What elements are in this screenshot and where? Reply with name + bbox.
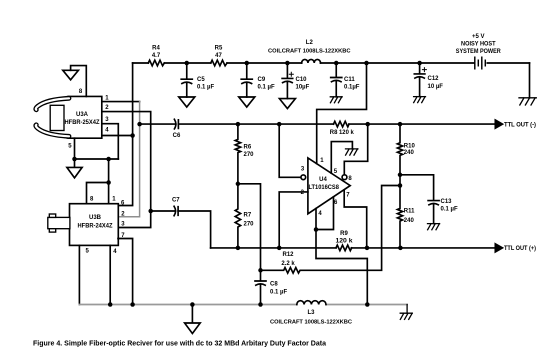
junction R6/R7 node xyxy=(236,182,241,187)
svg-text:HFBR-24X4Z: HFBR-24X4Z xyxy=(78,224,113,230)
junction +5V rail / C10 xyxy=(285,61,290,66)
wire U3A pin1 xyxy=(102,101,140,103)
svg-text:COILCRAFT 1008LS-122XKBC: COILCRAFT 1008LS-122XKBC xyxy=(270,320,352,326)
wire U3A pin4 xyxy=(102,135,133,137)
wire inverting input pin3 xyxy=(279,124,301,177)
pin 8 output bubble xyxy=(342,175,347,180)
svg-text:2.2 k: 2.2 k xyxy=(281,261,295,267)
junction R10/R11 node A (C13 branch) xyxy=(398,173,403,178)
junction +5V rail / C9 xyxy=(245,61,250,66)
chassis ground (pin5) xyxy=(346,149,358,155)
junction TTL(+) line / U4 pin7 branch xyxy=(365,246,370,251)
svg-text:0.1 µF: 0.1 µF xyxy=(441,207,458,213)
junction TTL(-) line / U4 pin8 branch xyxy=(365,122,370,127)
inductor L3 xyxy=(270,301,352,326)
resistor R12 xyxy=(261,186,401,274)
battery +5V noisy host system power xyxy=(456,34,502,69)
U3B port connector xyxy=(48,214,70,232)
U3B labels xyxy=(78,197,126,256)
resistor R11 xyxy=(397,175,415,248)
junction R10/R11 node B (R12 branch) xyxy=(398,183,403,188)
resistor R10 xyxy=(397,124,415,175)
svg-text:10µF: 10µF xyxy=(296,85,310,91)
svg-text:U3B: U3B xyxy=(89,215,102,221)
svg-text:R10: R10 xyxy=(404,143,416,149)
junction C6 line / R6 top xyxy=(236,122,241,127)
resistor R6 xyxy=(235,124,254,184)
junction ground rail / U3B pin7 xyxy=(130,302,135,307)
svg-text:U3A: U3A xyxy=(76,112,89,118)
U3B body xyxy=(70,204,119,246)
svg-text:270: 270 xyxy=(244,221,255,227)
svg-text:4.7: 4.7 xyxy=(152,53,161,59)
capacitor C7 xyxy=(172,197,180,215)
wire V+ supply to pin1 xyxy=(317,63,367,164)
svg-text:L2: L2 xyxy=(306,40,314,46)
U3A connector top prong xyxy=(36,98,69,110)
resistor R4 xyxy=(148,46,164,66)
wire rail end to chassis ground xyxy=(406,305,408,314)
svg-text:SYSTEM POWER: SYSTEM POWER xyxy=(456,49,502,55)
TTL OUT (-) arrow xyxy=(495,120,502,128)
ground (C5) xyxy=(179,97,195,107)
svg-text:240: 240 xyxy=(404,150,415,156)
junction U4 pin2 branch xyxy=(277,246,282,251)
junction +5V rail / U4 V+ branch xyxy=(364,61,369,66)
wire signal line C6 row xyxy=(140,123,495,125)
pin 3 input bubble xyxy=(301,175,306,180)
svg-text:COILCRAFT 1008LS-122XKBC: COILCRAFT 1008LS-122XKBC xyxy=(268,48,351,54)
ground (C9) xyxy=(239,97,255,107)
svg-text:NOISY HOST: NOISY HOST xyxy=(461,42,496,48)
chassis ground (rail end) xyxy=(400,313,412,319)
junction ground rail / U4 ground branch xyxy=(365,302,370,307)
capacitor C6 xyxy=(173,119,181,139)
capacitor C9 xyxy=(241,63,275,97)
wire U3B pin5 to bottom rail xyxy=(78,245,80,304)
junction C7 / U3A pin2 line xyxy=(148,209,153,214)
inductor L2 xyxy=(268,40,351,63)
resistor R7 xyxy=(235,184,254,248)
capacitor C10 polarized xyxy=(282,63,310,99)
wire ground node down to U3B pins 8,1 xyxy=(87,159,109,204)
wire ground node horizontal xyxy=(75,158,119,160)
svg-text:R12: R12 xyxy=(282,252,294,258)
junction +5V rail / C5 xyxy=(185,61,190,66)
svg-text:47: 47 xyxy=(215,53,222,59)
junction R7 bottom / signal line xyxy=(236,246,241,251)
capacitor C12 polarized xyxy=(414,63,443,97)
chassis ground (host power) xyxy=(519,98,536,105)
U3A connector bottom prong xyxy=(36,125,69,137)
junction +5V rail / C12 xyxy=(417,61,422,66)
svg-text:R8 120 k: R8 120 k xyxy=(330,130,355,136)
svg-text:L3: L3 xyxy=(307,310,315,316)
capacitor C11 xyxy=(331,63,360,97)
resistor R8 xyxy=(330,121,355,136)
svg-text:R11: R11 xyxy=(404,208,415,214)
wire bottom ground rail (gray) xyxy=(79,304,407,306)
svg-text:C7: C7 xyxy=(172,197,180,203)
svg-text:240: 240 xyxy=(404,218,415,224)
svg-text:C8: C8 xyxy=(270,281,278,287)
junction signal line / U4 pin3 branch xyxy=(277,122,282,127)
chassis ground (C13) xyxy=(428,224,440,230)
svg-text:R5: R5 xyxy=(215,46,223,52)
wire U3A pin2 down to U3B pin3 xyxy=(102,112,151,228)
junction TTL(-) line / R10 top xyxy=(398,122,403,127)
svg-text:+5 V: +5 V xyxy=(472,34,485,40)
svg-text:C6: C6 xyxy=(173,133,181,139)
svg-text:10 µF: 10 µF xyxy=(428,84,444,90)
chassis ground (C11) xyxy=(330,97,342,103)
svg-text:TTL OUT (+): TTL OUT (+) xyxy=(504,246,536,252)
wire pin5 latch to chassis ground xyxy=(331,142,352,174)
junction TTL(+) line / R11 bottom xyxy=(398,246,403,251)
wire pins 4,6 to ground rail xyxy=(316,197,367,305)
wire U3A pin8 to ground xyxy=(71,66,87,97)
wire R6/R7 node to threshold column xyxy=(238,184,261,270)
svg-text:R4: R4 xyxy=(152,46,160,52)
svg-text:C10: C10 xyxy=(296,77,308,83)
ground (U3A pin5) xyxy=(67,167,82,177)
junction U3A pin4 / VCC line xyxy=(130,133,135,138)
svg-text:0.1µF: 0.1µF xyxy=(344,85,360,91)
svg-text:LT1016CS8: LT1016CS8 xyxy=(308,185,339,191)
junction U3A pin5 ground node xyxy=(72,157,77,162)
resistor R5 xyxy=(211,46,227,66)
wire bottom signal row xyxy=(211,247,495,249)
junction U4 pins 4,6 ground branch xyxy=(314,227,319,232)
wire rail ground stub xyxy=(191,305,193,324)
svg-text:0.1 µF: 0.1 µF xyxy=(258,85,275,91)
wire pin7 output to TTL(+) net xyxy=(344,190,367,248)
resistor R9 xyxy=(336,231,354,251)
ground (rail) xyxy=(185,323,201,334)
wire U3A pin3 to ground node xyxy=(102,124,118,159)
wire C7 row xyxy=(151,211,211,248)
svg-text:C12: C12 xyxy=(428,76,440,82)
svg-text:R6: R6 xyxy=(244,145,252,151)
svg-text:C13: C13 xyxy=(441,199,453,205)
wire U3B pin7 to bottom rail xyxy=(118,239,133,305)
svg-text:120 k: 120 k xyxy=(336,238,354,244)
capacitor C5 xyxy=(181,63,214,97)
wire battery right down xyxy=(529,63,531,98)
wire pin2 input xyxy=(279,192,308,248)
svg-text:TTL OUT (-): TTL OUT (-) xyxy=(504,122,536,128)
wire U3A pin1 to U3B pin2 (gray) xyxy=(118,102,139,217)
ground (U3A pin8) xyxy=(63,70,79,80)
wire top +5V rail segments xyxy=(133,62,530,64)
U3A connector notch xyxy=(50,105,64,130)
capacitor C13 xyxy=(400,175,458,224)
junction U3B pin8 branch xyxy=(106,180,111,185)
svg-text:270: 270 xyxy=(244,152,255,158)
svg-text:0.1 µF: 0.1 µF xyxy=(270,290,287,296)
ground (C10) xyxy=(279,99,295,109)
junction ground rail / ground symbol xyxy=(190,302,195,307)
wire U3B pin4 to bottom rail xyxy=(109,245,111,304)
wire U3A pin5 to ground xyxy=(74,138,76,167)
junction ground rail / C8 xyxy=(258,302,263,307)
TTL OUT (+) arrow xyxy=(495,244,502,252)
svg-text:R9: R9 xyxy=(340,231,348,237)
junction R12 / C8 node xyxy=(258,268,263,273)
wire rail left vertical down to U3A pin4 and U3B pin6 xyxy=(118,63,132,206)
svg-text:Figure 4. Simple Fiber-optic R: Figure 4. Simple Fiber-optic Reciver for… xyxy=(33,341,326,348)
op-amp U4 LT1016CS8 xyxy=(308,158,350,214)
svg-text:U4: U4 xyxy=(319,177,327,183)
svg-text:C11: C11 xyxy=(344,77,355,83)
svg-text:C5: C5 xyxy=(197,77,205,83)
chassis ground (C12) xyxy=(414,97,426,103)
capacitor C8 xyxy=(255,270,287,304)
svg-text:R7: R7 xyxy=(244,213,252,219)
wire pin8 output to TTL(-) net xyxy=(344,124,367,175)
svg-text:HFBR-25X4Z: HFBR-25X4Z xyxy=(65,120,100,126)
U3A labels xyxy=(65,89,110,150)
junction +5V rail / C11 xyxy=(334,61,339,66)
U3A receiver body xyxy=(62,96,102,138)
junction C6 / U3A pin1 line xyxy=(137,122,142,127)
svg-text:C9: C9 xyxy=(258,77,266,83)
svg-text:0.1 µF: 0.1 µF xyxy=(197,85,214,91)
junction ground rail / U3B pin4 xyxy=(108,302,113,307)
junction ground node / U3B pin1 line xyxy=(106,157,111,162)
